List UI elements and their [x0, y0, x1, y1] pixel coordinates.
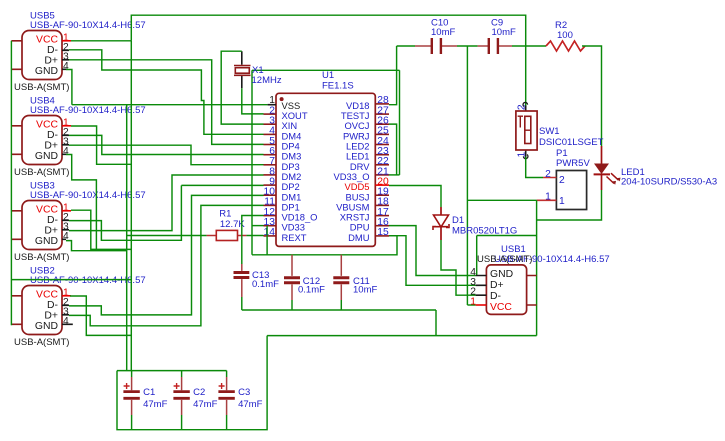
svg-text:D+: D+: [44, 310, 58, 321]
wire USB3 D+ to chip DM2: [69, 175, 264, 231]
svg-text:D-: D-: [490, 291, 501, 302]
svg-text:D+: D+: [490, 280, 504, 291]
svg-text:VCC: VCC: [36, 119, 58, 130]
svg-text:D-: D-: [47, 215, 58, 226]
wire bulk cap frame left/bottom: [117, 336, 267, 430]
svg-text:DMU: DMU: [348, 232, 370, 243]
wire USB2 VCC to VCC bus: [70, 296, 131, 335]
wire USB4 D+ to chip DP3: [69, 145, 264, 165]
wire DMU pin15 to USB1: [389, 236, 476, 286]
svg-text:GND: GND: [35, 236, 58, 247]
crystal X1 12MHz: [241, 51, 243, 88]
resistor R2 100: [546, 41, 585, 51]
svg-text:2: 2: [517, 104, 528, 110]
svg-text:USB-A(SMT): USB-A(SMT): [14, 82, 69, 93]
wire decoupling gnd row: [242, 309, 436, 311]
wire DP2 row: [181, 184, 263, 186]
wire R2 to LED column: [582, 46, 602, 146]
svg-text:2: 2: [545, 169, 551, 180]
svg-text:15: 15: [377, 227, 389, 238]
wire USB2 D- to chip DM1: [69, 195, 264, 315]
wire VD33 net: pin13 riser, top link, under-chip rail: [252, 225, 264, 227]
svg-text:1: 1: [470, 297, 476, 308]
svg-text:1: 1: [545, 191, 551, 202]
wire USB4 GND down: [66, 155, 96, 251]
wire gnd column to USB1 GND pin: [477, 235, 537, 237]
wire bulk cap top rail: [117, 370, 227, 372]
svg-text:USB-AF-90-10X14.4-H6.57: USB-AF-90-10X14.4-H6.57: [30, 20, 146, 31]
chip left pin stubs 1-14: [264, 113, 277, 115]
svg-text:R1: R1: [219, 209, 231, 220]
capacitor C1 47mF electrolytic: [131, 371, 133, 377]
svg-text:SW1: SW1: [539, 126, 560, 137]
svg-text:REXT: REXT: [282, 232, 307, 243]
svg-text:VCC: VCC: [36, 204, 58, 215]
connector USB3 USB-A female: [22, 201, 62, 250]
chip right pin stubs 28-15: [375, 103, 389, 105]
wire mid gnd rail: [267, 335, 536, 337]
svg-text:4: 4: [63, 316, 69, 327]
capacitor C11 10mF: [340, 255, 342, 300]
wire USB2 D+ to chip DP1: [69, 205, 264, 325]
svg-text:C2: C2: [193, 387, 205, 398]
svg-text:D-: D-: [47, 45, 58, 56]
connector USB2 USB-A female: [22, 286, 62, 335]
wire VD18 pin28 up to cap rail: [389, 46, 397, 105]
wire between C10 and C9: [457, 45, 478, 47]
svg-text:PWR5V: PWR5V: [556, 158, 590, 169]
wire USB4 VCC to VCC bus: [71, 126, 131, 164]
svg-text:12MHz: 12MHz: [252, 75, 282, 86]
wire USB5 GND down: [66, 70, 72, 105]
wire left shield bus: [10, 41, 12, 326]
wire USB3 D- to chip DP2: [69, 185, 181, 240]
svg-text:0.1mF: 0.1mF: [298, 284, 325, 295]
svg-text:USB-A(SMT): USB-A(SMT): [14, 337, 69, 348]
connector USB5 USB-A female: [22, 31, 62, 80]
connector USB1 USB-A female upstream: [486, 265, 526, 315]
wire USB4 D- to chip DM3: [69, 135, 264, 154]
connector P1 PWR5V: [556, 171, 586, 210]
svg-text:USB-A(SMT): USB-A(SMT): [14, 167, 69, 178]
capacitor C9 10mF: [478, 45, 512, 47]
svg-text:14: 14: [264, 227, 276, 238]
svg-text:DSIC01LSGET: DSIC01LSGET: [539, 137, 604, 148]
svg-text:USB-AF-90-10X14.4-H6.57: USB-AF-90-10X14.4-H6.57: [30, 105, 146, 116]
svg-text:VCC: VCC: [36, 34, 58, 45]
wire right gnd column: [536, 200, 538, 335]
svg-text:100: 100: [557, 30, 573, 41]
svg-text:GND: GND: [35, 321, 58, 332]
wire C9 to R2: [512, 45, 546, 47]
wire USB3 GND down: [66, 241, 127, 251]
svg-text:2: 2: [559, 175, 565, 186]
svg-text:D-: D-: [47, 300, 58, 311]
diode D1 MBR0520LT1G schottky: [440, 207, 442, 240]
capacitor C3 47mF electrolytic: [226, 371, 228, 377]
wire USB5 VCC to top rail and VCC bus: [71, 40, 131, 42]
wire C13 bottom to gnd row: [241, 297, 243, 310]
wire USB5 D- to chip DM4: [69, 50, 264, 135]
wire P1 pin1 to VBUS junction: [467, 199, 536, 201]
svg-text:D+: D+: [44, 225, 58, 236]
svg-text:D1: D1: [452, 215, 464, 226]
capacitor C10 10mF: [415, 45, 457, 47]
svg-text:0.1mF: 0.1mF: [252, 279, 279, 290]
wire DPU pin16 to USB1: [389, 226, 476, 276]
svg-text:D+: D+: [44, 55, 58, 66]
wire pin13 drop to under-chip rail: [266, 226, 268, 255]
wire USB3 VCC to VCC bus: [71, 210, 131, 249]
wire SW1 bottom to P1 pin2: [526, 157, 543, 178]
svg-text:USB-A(SMT): USB-A(SMT): [477, 254, 532, 265]
op-amp U1 FE1.1S USB hub controller: [276, 93, 375, 246]
wire VSS/GND row to USB5 GND: [72, 104, 268, 106]
svg-text:1: 1: [559, 196, 565, 207]
svg-text:USB-AF-90-10X14.4-H6.57: USB-AF-90-10X14.4-H6.57: [30, 275, 146, 286]
switch SW1 DSIC01LSGET: [525, 106, 527, 157]
svg-text:USB-A(SMT): USB-A(SMT): [14, 252, 69, 263]
wire USB5 D+ to chip DP4: [69, 60, 264, 145]
svg-text:FE1.1S: FE1.1S: [322, 81, 354, 92]
wire VDD5 pin20 to D1 anode: [389, 186, 441, 208]
svg-text:C1: C1: [143, 387, 155, 398]
wire GND bus vertical: [126, 105, 128, 371]
svg-text:47mF: 47mF: [238, 399, 262, 410]
resistor R1 12.7K: [127, 235, 207, 237]
svg-text:D-: D-: [47, 130, 58, 141]
wire top rail to SW1: [131, 15, 525, 107]
wire LED cathode down to VBUS-gnd column: [537, 190, 602, 220]
svg-text:GND: GND: [35, 151, 58, 162]
wire VBUS vertical C9/C10 junction to USB1 VCC: [466, 46, 468, 305]
svg-text:USB-AF-90-10X14.4-H6.57: USB-AF-90-10X14.4-H6.57: [30, 190, 146, 201]
svg-text:D+: D+: [44, 140, 58, 151]
wire USB1 D- to D1 cathode: [441, 240, 476, 295]
wire under-chip rail to DMU: [252, 236, 397, 255]
svg-text:VCC: VCC: [36, 289, 58, 300]
capacitor C2 47mF electrolytic: [181, 371, 183, 377]
svg-text:47mF: 47mF: [143, 399, 167, 410]
svg-text:10mF: 10mF: [353, 284, 377, 295]
svg-text:10mF: 10mF: [492, 27, 516, 38]
pin 1 marker dot: [280, 97, 284, 101]
wire cap rail left: [397, 45, 415, 47]
connector USB4 USB-A female: [22, 116, 62, 165]
svg-text:47mF: 47mF: [193, 399, 217, 410]
capacitor C13 0.1mF: [241, 264, 243, 297]
wire VD18_O pin12 to C13: [242, 216, 264, 265]
svg-text:U1: U1: [322, 70, 334, 81]
svg-text:C3: C3: [238, 387, 250, 398]
wire OVCJ to VD33_O: [389, 124, 397, 175]
wire XIN to crystal top: [221, 51, 263, 124]
svg-text:204-10SURD/S530-A3: 204-10SURD/S530-A3: [621, 176, 717, 187]
svg-text:GND: GND: [490, 269, 513, 280]
wire shield bus to gnd bus link: [11, 279, 131, 281]
svg-text:VCC: VCC: [490, 302, 512, 313]
capacitor C12 0.1mF: [291, 255, 293, 300]
wire gnd row down to rail: [435, 310, 437, 336]
svg-text:10mF: 10mF: [431, 27, 455, 38]
svg-text:GND: GND: [35, 66, 58, 77]
wire VCC bus vertical: [130, 41, 132, 371]
wire XOUT to crystal bottom: [242, 88, 264, 114]
LED LED1: [601, 146, 603, 190]
